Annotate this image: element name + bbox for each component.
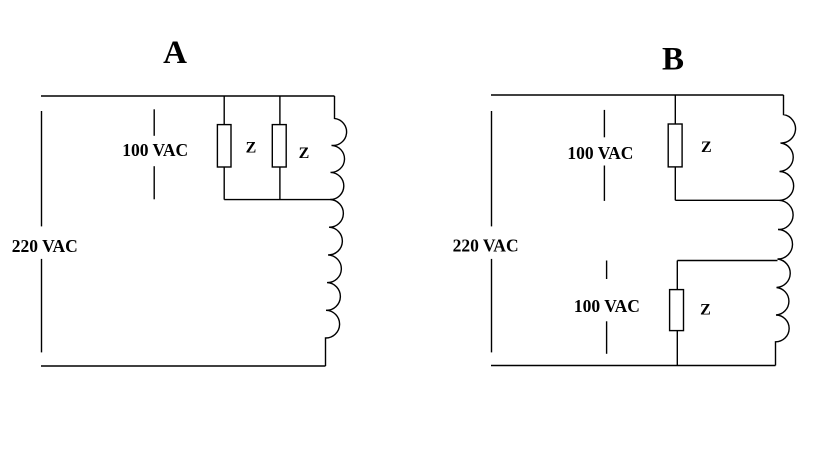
wire A R1 lead bbox=[223, 96, 225, 200]
inductor A winding bbox=[326, 96, 347, 366]
svg-text:A: A bbox=[163, 35, 187, 71]
wire B tap 1 bbox=[675, 199, 779, 201]
svg-text:220 VAC: 220 VAC bbox=[12, 236, 78, 256]
resistor Z2 bbox=[272, 125, 286, 167]
wire A left rail lower bbox=[41, 259, 43, 353]
measure line B lower dash 2 bbox=[606, 321, 608, 354]
svg-text:Z: Z bbox=[299, 145, 310, 162]
measure line B upper dash 1 bbox=[603, 110, 605, 137]
svg-text:220 VAC: 220 VAC bbox=[453, 236, 519, 256]
wire B left rail lower bbox=[491, 259, 493, 353]
svg-text:100 VAC: 100 VAC bbox=[574, 296, 640, 316]
svg-text:100 VAC: 100 VAC bbox=[122, 140, 188, 160]
wire B left rail upper bbox=[491, 111, 493, 226]
resistor Z lower (B) bbox=[670, 290, 684, 331]
measure line A upper dash bbox=[153, 109, 155, 136]
wire A R2 lead bbox=[279, 96, 281, 200]
wire B upper R lead bbox=[674, 95, 676, 200]
svg-text:Z: Z bbox=[701, 139, 712, 156]
wire A left rail upper bbox=[41, 111, 43, 226]
svg-text:100 VAC: 100 VAC bbox=[567, 143, 633, 163]
wire B bottom bbox=[491, 365, 776, 367]
measure line A lower dash bbox=[153, 166, 155, 199]
wire A tap bbox=[224, 199, 330, 201]
svg-text:Z: Z bbox=[700, 301, 711, 318]
wire B lower R lead bbox=[676, 261, 678, 366]
resistor Z upper (B) bbox=[668, 124, 682, 167]
wire B tap 2 bbox=[677, 260, 777, 262]
wire B top bbox=[491, 94, 784, 96]
svg-text:Z: Z bbox=[246, 139, 257, 156]
measure line B lower dash 1 bbox=[606, 261, 608, 280]
wire A bottom bbox=[41, 365, 326, 367]
measure line B upper dash 2 bbox=[603, 166, 605, 201]
resistor Z1 bbox=[217, 125, 231, 167]
wire A top bbox=[41, 95, 335, 97]
inductor B winding bbox=[776, 95, 796, 366]
svg-text:B: B bbox=[662, 42, 684, 78]
